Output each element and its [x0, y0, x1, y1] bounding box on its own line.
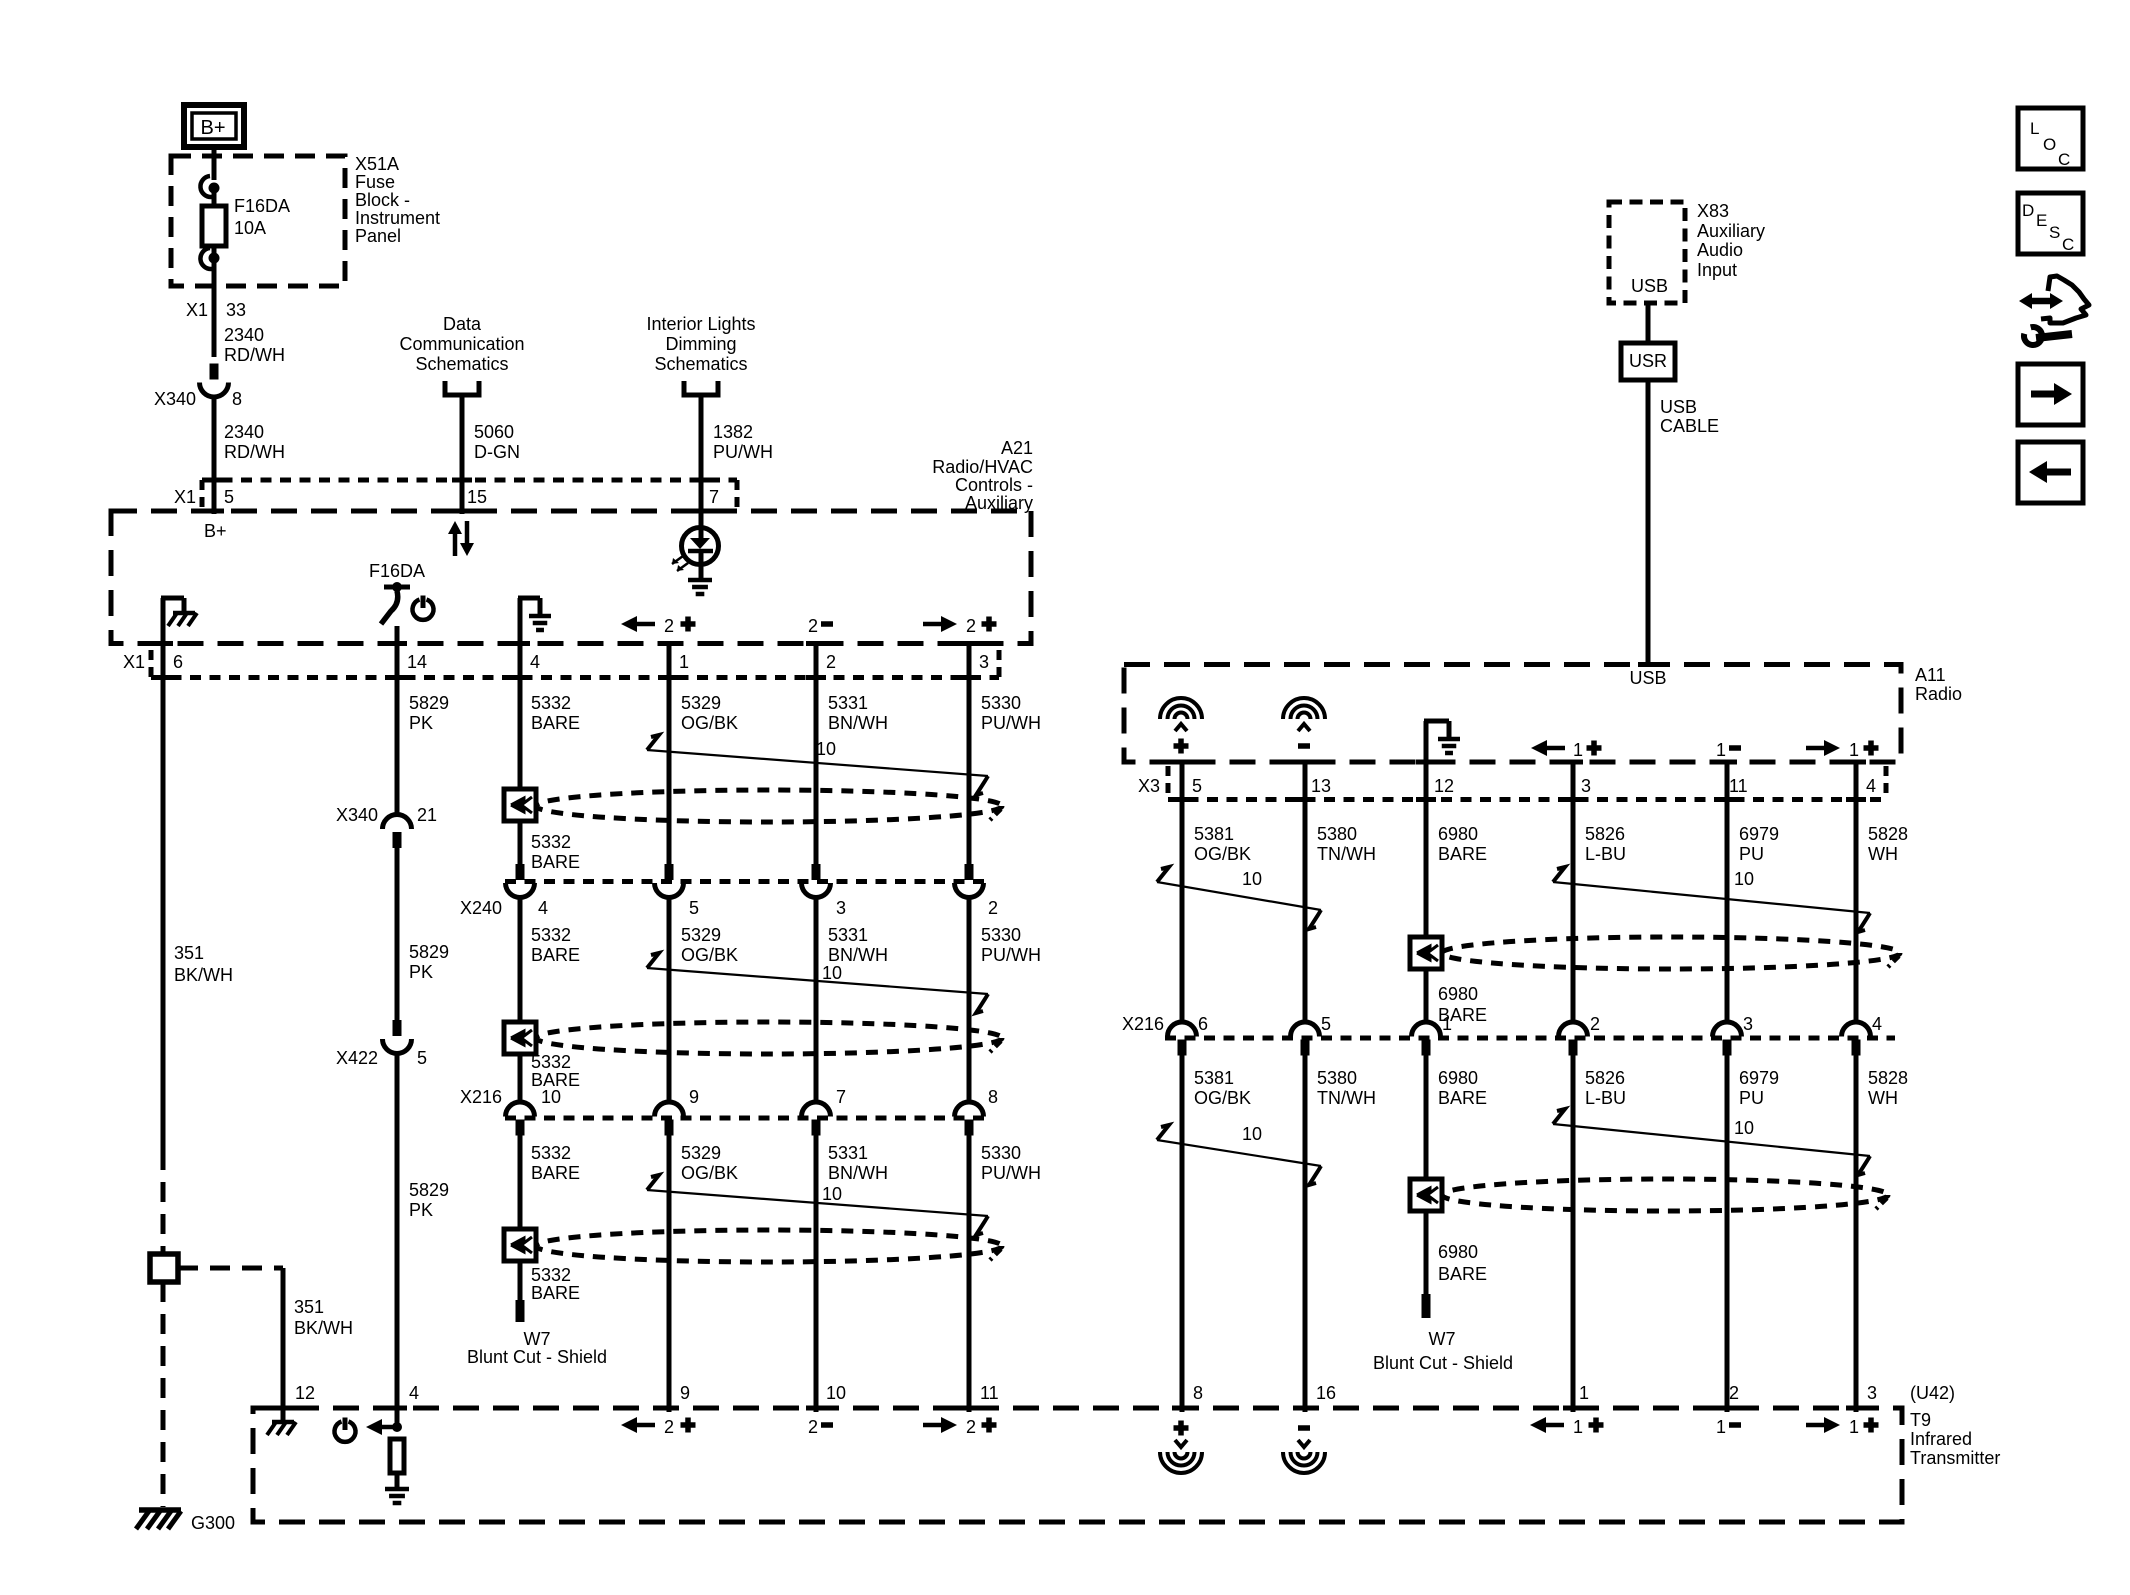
label 5332 BARE row3 [531, 1143, 580, 1183]
svg-text:X1: X1 [174, 487, 196, 507]
svg-text:8: 8 [988, 1087, 998, 1107]
svg-text:12: 12 [295, 1383, 315, 1403]
svg-text:PU: PU [1739, 1088, 1764, 1108]
svg-text:1: 1 [1573, 740, 1583, 760]
svg-text:2: 2 [826, 652, 836, 672]
svg-text:Dimming: Dimming [665, 334, 736, 354]
chassis ground inside A21 left [161, 598, 197, 646]
audio 1- in A11 [1716, 740, 1741, 760]
wire 5826 segment 2 [1571, 1055, 1576, 1412]
svg-text:F16DA: F16DA [369, 561, 425, 581]
svg-text:9: 9 [680, 1383, 690, 1403]
svg-text:PU/WH: PU/WH [981, 1163, 1041, 1183]
wire dashed splice to G300 [161, 1282, 166, 1507]
splice junction square [150, 1254, 178, 1282]
label wire 2340 RD/WH upper [224, 325, 285, 365]
svg-text:PU/WH: PU/WH [713, 442, 773, 462]
wire 5332 segment 5 [518, 1135, 523, 1229]
svg-text:5826: 5826 [1585, 824, 1625, 844]
label 5828 WH rowA [1868, 824, 1908, 864]
svg-text:B+: B+ [204, 521, 227, 541]
label 5329 OG/BK row1 [681, 693, 738, 733]
svg-text:1: 1 [1579, 1383, 1589, 1403]
wire 5829 PK segment 1 [395, 646, 400, 814]
svg-text:6: 6 [1198, 1014, 1208, 1034]
wire 5332 segment 1 [518, 646, 523, 789]
earth ground in T9 [385, 1487, 409, 1492]
svg-text:7: 7 [836, 1087, 846, 1107]
label 5829 PK third [409, 1180, 449, 1220]
wire 5828 segment 2 [1854, 1055, 1859, 1412]
svg-text:6979: 6979 [1739, 1068, 1779, 1088]
label X340 8 [154, 389, 242, 409]
wire 5381 segment 2 [1180, 1055, 1185, 1412]
svg-text:5332: 5332 [531, 1052, 571, 1072]
label 5332 BARE below shield3 [531, 1265, 580, 1303]
svg-text:5329: 5329 [681, 925, 721, 945]
connector X422 pin 5 inline [393, 1020, 402, 1036]
svg-text:W7: W7 [1429, 1329, 1456, 1349]
wire 5381 segment 1 [1180, 764, 1185, 1024]
svg-text:2340: 2340 [224, 422, 264, 442]
power symbol in T9 [335, 1422, 356, 1442]
svg-text:Instrument: Instrument [355, 208, 440, 228]
svg-text:10: 10 [1734, 1118, 1754, 1138]
svg-text:TN/WH: TN/WH [1317, 844, 1376, 864]
shield twisted ellipse 1 [536, 790, 1002, 822]
svg-text:2: 2 [808, 1417, 818, 1437]
svg-text:10: 10 [822, 1184, 842, 1204]
wire X83 to USR [1646, 303, 1651, 343]
svg-text:BARE: BARE [531, 852, 580, 872]
svg-text:5380: 5380 [1317, 1068, 1357, 1088]
label 5329 OG/BK row2 [681, 925, 738, 965]
svg-text:E: E [2036, 211, 2047, 230]
svg-text:BN/WH: BN/WH [828, 713, 888, 733]
svg-text:21: 21 [417, 805, 437, 825]
wire 5329 segment 3 [667, 1135, 672, 1412]
svg-text:1: 1 [1849, 740, 1859, 760]
svg-text:15: 15 [467, 487, 487, 507]
svg-text:PU/WH: PU/WH [981, 713, 1041, 733]
svg-text:PK: PK [409, 713, 433, 733]
label 5330 PU/WH row1 [981, 693, 1041, 733]
label 5826 L-BU rowA [1585, 824, 1626, 864]
off-page bracket interior lights [684, 381, 718, 395]
shield splice 3 [504, 1229, 536, 1261]
svg-text:5332: 5332 [531, 1143, 571, 1163]
label 6980 BARE below shield r1 [1438, 984, 1487, 1025]
twisted pair note 2 [647, 968, 988, 994]
shield twisted ellipse 3 [536, 1230, 1002, 1262]
earth ground inside A11 [1424, 721, 1460, 764]
label F16DA 10A [234, 196, 290, 238]
svg-text:2: 2 [1590, 1014, 1600, 1034]
svg-text:3: 3 [1743, 1014, 1753, 1034]
svg-text:3: 3 [979, 652, 989, 672]
connector row X3 [1168, 766, 1886, 800]
svg-text:OG/BK: OG/BK [1194, 1088, 1251, 1108]
svg-text:10: 10 [826, 1383, 846, 1403]
svg-text:8: 8 [1193, 1383, 1203, 1403]
svg-text:13: 13 [1311, 776, 1331, 796]
svg-text:6980: 6980 [1438, 1242, 1478, 1262]
svg-text:10: 10 [1242, 1124, 1262, 1144]
antenna symbol minus in A11 [1283, 698, 1325, 749]
svg-text:Auxiliary: Auxiliary [1697, 221, 1765, 241]
svg-text:5828: 5828 [1868, 1068, 1908, 1088]
label wire 2340 RD/WH lower [224, 422, 285, 462]
svg-text:Transmitter: Transmitter [1910, 1448, 2000, 1468]
icon back arrow box [2018, 442, 2083, 503]
svg-text:L-BU: L-BU [1585, 844, 1626, 864]
svg-text:1: 1 [1849, 1417, 1859, 1437]
label 6979 PU rowA [1739, 824, 1779, 864]
svg-text:BN/WH: BN/WH [828, 1163, 888, 1183]
svg-text:Radio: Radio [1915, 684, 1962, 704]
svg-text:5381: 5381 [1194, 824, 1234, 844]
connector X340 pin 8 inline [210, 364, 219, 380]
label W7 blunt cut left [467, 1329, 607, 1367]
svg-text:10: 10 [816, 739, 836, 759]
wire 5332 segment 2 [518, 821, 523, 864]
svg-text:8: 8 [232, 389, 242, 409]
connector X340 pin 21 inline [383, 815, 412, 830]
svg-text:5: 5 [1321, 1014, 1331, 1034]
icon forward arrow box [2018, 364, 2083, 425]
connector row X240 [505, 864, 985, 898]
label 6980 BARE below shield r2 [1438, 1242, 1487, 1284]
label 6980 BARE rowB [1438, 1068, 1487, 1108]
svg-text:5332: 5332 [531, 832, 571, 852]
svg-text:3: 3 [836, 898, 846, 918]
shield splice right 1 [1410, 937, 1442, 969]
wire 6980 tail [1424, 1211, 1429, 1294]
svg-text:Block -: Block - [355, 190, 410, 210]
wire dashed splice to T9 pin 12 horizontal [178, 1266, 283, 1271]
earth ground inside A21 for shield [518, 598, 551, 646]
antenna minus in T9 [1283, 1425, 1325, 1473]
wire 5329 segment 1 [667, 646, 672, 864]
wire 5826 segment 1 [1571, 764, 1576, 1024]
label 351 BK/WH lower [294, 1297, 353, 1338]
svg-text:5329: 5329 [681, 693, 721, 713]
wire 5330 segment 2 [967, 896, 972, 1104]
connector row X1 top [202, 480, 737, 510]
svg-text:12: 12 [1434, 776, 1454, 796]
svg-text:11: 11 [1729, 776, 1748, 796]
svg-text:Controls -: Controls - [955, 475, 1033, 495]
svg-text:10: 10 [541, 1087, 561, 1107]
svg-text:BARE: BARE [531, 1163, 580, 1183]
component A21 Radio/HVAC Controls dashed box [111, 511, 1031, 644]
label 5332 BARE below shield2 [531, 1052, 580, 1090]
chassis ground in T9 pin 12 [272, 1420, 294, 1425]
svg-text:BARE: BARE [531, 945, 580, 965]
svg-text:5380: 5380 [1317, 824, 1357, 844]
wire 5332 tail [518, 1261, 523, 1300]
wire clip to fuse [212, 189, 217, 206]
svg-text:G300: G300 [191, 1513, 235, 1533]
svg-text:BARE: BARE [531, 713, 580, 733]
svg-text:5330: 5330 [981, 1143, 1021, 1163]
component A11 Radio dashed box [1124, 665, 1901, 763]
icon LOC box [2018, 108, 2083, 169]
audio left arrow 1+ in A11 [1531, 740, 1602, 760]
svg-text:L-BU: L-BU [1585, 1088, 1626, 1108]
svg-text:L: L [2030, 119, 2039, 138]
svg-text:O: O [2043, 135, 2056, 154]
svg-text:351: 351 [294, 1297, 324, 1317]
svg-text:5: 5 [417, 1048, 427, 1068]
label A11 Radio [1915, 665, 1962, 704]
svg-text:14: 14 [407, 652, 427, 672]
wire 5829 PK segment 3 [395, 1051, 400, 1427]
svg-text:1382: 1382 [713, 422, 753, 442]
label X422 5 [336, 1048, 427, 1068]
svg-text:5828: 5828 [1868, 824, 1908, 844]
svg-text:5330: 5330 [981, 693, 1021, 713]
svg-text:Auxiliary: Auxiliary [965, 493, 1033, 513]
svg-text:X216: X216 [460, 1087, 502, 1107]
wire 5329 segment 2 [667, 896, 672, 1104]
svg-text:W7: W7 [524, 1329, 551, 1349]
svg-text:Schematics: Schematics [415, 354, 508, 374]
svg-text:PK: PK [409, 1200, 433, 1220]
wire F16DA to A21 pin 14 [395, 626, 400, 646]
shield splice 1 [504, 789, 536, 821]
svg-text:4: 4 [409, 1383, 419, 1403]
fuse F16DA symbol in A21 [381, 582, 410, 624]
svg-text:5329: 5329 [681, 1143, 721, 1163]
twisted pair note 3 [647, 1190, 988, 1216]
wire 351 BK/WH from A21 pin 6 [161, 646, 166, 1150]
svg-text:A11: A11 [1915, 665, 1946, 685]
svg-text:5330: 5330 [981, 925, 1021, 945]
svg-text:Schematics: Schematics [654, 354, 747, 374]
shield twisted ellipse right 1 [1442, 937, 1900, 969]
wire 5331 segment 2 [814, 896, 819, 1104]
audio right arrow 1+ in A11 [1806, 740, 1879, 760]
wire 5330 segment 1 [967, 646, 972, 864]
icon data link connector [2019, 276, 2089, 345]
svg-text:X240: X240 [460, 898, 502, 918]
svg-text:RD/WH: RD/WH [224, 442, 285, 462]
svg-text:5332: 5332 [531, 693, 571, 713]
audio left arrow 2+ in T9 [621, 1417, 696, 1437]
svg-text:BK/WH: BK/WH [294, 1318, 353, 1338]
svg-text:1: 1 [1442, 1014, 1452, 1034]
svg-text:4: 4 [1872, 1014, 1882, 1034]
wire 5331 segment 1 [814, 646, 819, 864]
label 5381 OG/BK rowB [1194, 1068, 1251, 1108]
svg-text:X3: X3 [1138, 776, 1160, 796]
wire fuse block to X340 [212, 262, 217, 357]
svg-text:2: 2 [966, 1417, 976, 1437]
svg-text:5829: 5829 [409, 942, 449, 962]
svg-text:10: 10 [822, 963, 842, 983]
svg-text:4: 4 [1866, 776, 1876, 796]
node B+ battery feed box [184, 105, 244, 147]
svg-text:OG/BK: OG/BK [681, 713, 738, 733]
svg-text:5060: 5060 [474, 422, 514, 442]
svg-text:Audio: Audio [1697, 240, 1743, 260]
label Interior Lights Dimming Schematics [646, 314, 755, 374]
svg-text:D-GN: D-GN [474, 442, 520, 462]
svg-text:5331: 5331 [828, 925, 868, 945]
svg-text:6980: 6980 [1438, 1068, 1478, 1088]
label 5381 OG/BK rowA [1194, 824, 1251, 864]
svg-text:BARE: BARE [1438, 1264, 1487, 1284]
wire 6979 segment 2 [1725, 1055, 1730, 1412]
svg-text:5331: 5331 [828, 1143, 868, 1163]
power symbol near F16DA [413, 600, 434, 620]
twisted pair note right upper audio [1553, 882, 1870, 913]
svg-text:1: 1 [1573, 1417, 1583, 1437]
label wire 5060 D-GN [474, 422, 520, 462]
svg-text:USB: USB [1631, 276, 1668, 296]
svg-text:C: C [2058, 150, 2070, 169]
audio 1- in T9 [1716, 1417, 1741, 1437]
label 6979 PU rowB [1739, 1068, 1779, 1108]
earth ground under LED [688, 578, 712, 583]
svg-text:Blunt Cut - Shield: Blunt Cut - Shield [467, 1347, 607, 1367]
antenna symbol plus in A11 [1160, 698, 1202, 754]
wire 5380 segment 2 [1303, 1055, 1308, 1412]
svg-text:4: 4 [538, 898, 548, 918]
svg-text:5826: 5826 [1585, 1068, 1625, 1088]
blunt cut terminal W7 left [516, 1300, 525, 1322]
icon DESC box [2018, 193, 2083, 254]
wire 6980 segment 3 [1424, 1055, 1429, 1179]
label 5331 BN/WH row1 [828, 693, 888, 733]
svg-text:2: 2 [988, 898, 998, 918]
wire 5332 segment 3 [518, 896, 523, 1022]
svg-text:WH: WH [1868, 1088, 1898, 1108]
wire B+ to fuse [212, 145, 217, 180]
audio left arrow 1+ in T9 [1530, 1417, 1604, 1437]
label X83 Auxiliary Audio Input [1697, 201, 1765, 280]
label wire 1382 PU/WH [713, 422, 773, 462]
svg-text:X51A: X51A [355, 154, 399, 174]
component X83 Auxiliary Audio Input dashed box [1609, 202, 1685, 303]
svg-text:TN/WH: TN/WH [1317, 1088, 1376, 1108]
wire fuse to clip [212, 246, 217, 253]
svg-text:X340: X340 [154, 389, 196, 409]
audio 2- in T9 [808, 1417, 833, 1437]
audio right arrow 2+ in A21 [923, 616, 997, 636]
svg-text:WH: WH [1868, 844, 1898, 864]
label 5332 BARE row2 [531, 925, 580, 965]
svg-text:T9: T9 [1910, 1410, 1931, 1430]
fuse F16DA 10A [202, 206, 226, 246]
svg-text:5331: 5331 [828, 693, 868, 713]
svg-text:BARE: BARE [1438, 1088, 1487, 1108]
component USR inline box [1621, 343, 1675, 380]
svg-text:5: 5 [1192, 776, 1202, 796]
label (U42) T9 Infrared Transmitter [1910, 1383, 2000, 1468]
svg-text:Panel: Panel [355, 226, 401, 246]
svg-text:OG/BK: OG/BK [681, 945, 738, 965]
svg-text:10: 10 [1242, 869, 1262, 889]
wire resistor to ground [395, 1473, 400, 1487]
wire 5380 segment 1 [1303, 764, 1308, 1024]
svg-text:B+: B+ [200, 117, 225, 139]
audio right arrow 1+ in T9 [1806, 1417, 1879, 1437]
svg-text:2: 2 [1729, 1383, 1739, 1403]
svg-text:9: 9 [689, 1087, 699, 1107]
svg-text:1: 1 [1716, 740, 1726, 760]
wire 6979 segment 1 [1725, 764, 1730, 1024]
twisted pair note 1 [647, 750, 988, 776]
label 5380 TN/WH rowB [1317, 1068, 1376, 1108]
component T9 Infrared Transmitter dashed box [253, 1408, 1902, 1522]
svg-text:Data: Data [443, 314, 482, 334]
wire X340 to A21 pin 5 [212, 395, 217, 514]
wire 5332 segment 4 [518, 1054, 523, 1104]
svg-text:Interior Lights: Interior Lights [646, 314, 755, 334]
blunt cut terminal W7 right [1422, 1294, 1431, 1318]
svg-text:A21: A21 [1001, 438, 1033, 458]
resistor in T9 [390, 1439, 404, 1473]
fuse clip top [200, 176, 219, 197]
svg-text:X83: X83 [1697, 201, 1729, 221]
wire 5060 to A21 pin 15 [460, 395, 465, 514]
svg-text:11: 11 [980, 1383, 999, 1403]
svg-text:16: 16 [1316, 1383, 1336, 1403]
shield twisted ellipse right 2 [1442, 1179, 1888, 1211]
svg-text:5332: 5332 [531, 1265, 571, 1285]
svg-text:6980: 6980 [1438, 984, 1478, 1004]
label A21 Radio/HVAC Controls - Auxiliary [932, 438, 1033, 513]
wire 1382 to A21 pin 7 [699, 395, 704, 514]
svg-text:7: 7 [709, 487, 719, 507]
svg-text:2: 2 [966, 616, 976, 636]
label 351 BK/WH upper [174, 943, 233, 985]
svg-text:X1: X1 [123, 652, 145, 672]
svg-text:2: 2 [664, 616, 674, 636]
twisted pair note right lower antenna [1157, 1140, 1321, 1166]
svg-text:X340: X340 [336, 805, 378, 825]
svg-text:2: 2 [808, 616, 818, 636]
off-page bracket data comm [445, 381, 479, 395]
svg-text:PK: PK [409, 962, 433, 982]
connector row X216 left [505, 1102, 985, 1136]
wire splice to T9 pin 12 vertical [281, 1268, 286, 1420]
audio out left arrow 2+ in A21 [621, 616, 696, 636]
svg-text:10: 10 [1734, 869, 1754, 889]
svg-text:X422: X422 [336, 1048, 378, 1068]
label Data Communication Schematics [399, 314, 524, 374]
svg-text:Communication: Communication [399, 334, 524, 354]
svg-text:6979: 6979 [1739, 824, 1779, 844]
data comm up/down arrows in A21 [448, 521, 474, 556]
svg-text:X1: X1 [186, 300, 208, 320]
svg-text:USB: USB [1629, 668, 1666, 688]
LED indicator in A21 [682, 514, 719, 578]
svg-text:BK/WH: BK/WH [174, 965, 233, 985]
twisted pair note right upper antenna [1157, 882, 1321, 910]
connector row X216 right [1165, 1022, 1895, 1056]
label X340 21 [336, 805, 437, 825]
wire 5331 segment 3 [814, 1135, 819, 1412]
svg-text:PU/WH: PU/WH [981, 945, 1041, 965]
svg-text:Infrared: Infrared [1910, 1429, 1972, 1449]
ground G300 [136, 1510, 181, 1529]
label 5826 L-BU rowB [1585, 1068, 1626, 1108]
shield twisted ellipse 2 [536, 1022, 1002, 1054]
label 5330 PU/WH row3 [981, 1143, 1041, 1183]
